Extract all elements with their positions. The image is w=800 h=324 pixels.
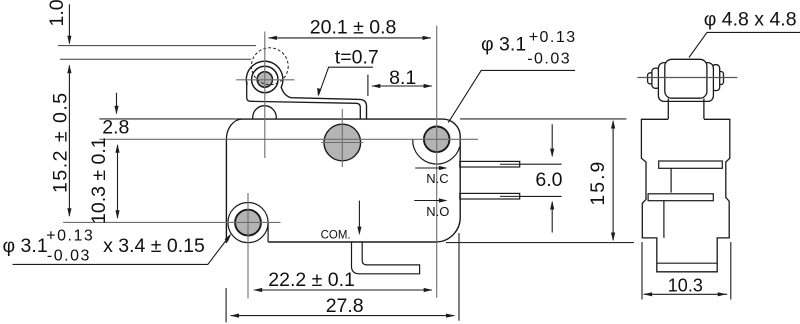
svg-text:+0.13: +0.13 xyxy=(46,228,94,245)
svg-text:N.C: N.C xyxy=(426,171,448,186)
terminal COM L-shaped blade xyxy=(352,242,420,274)
svg-text:COM.: COM. xyxy=(321,230,351,242)
leader phi4.8 xyxy=(689,32,800,57)
wire terminal upper stub xyxy=(670,168,672,192)
arrow COM down xyxy=(358,201,360,233)
svg-text:N.O: N.O xyxy=(426,204,449,219)
plunger neck xyxy=(668,99,704,119)
node 10.3 right extension line xyxy=(730,242,732,300)
switch body outline xyxy=(242,119,460,242)
node lever tip extension line xyxy=(367,75,369,96)
node centerline-hole-topright-vertical xyxy=(436,26,438,298)
boss circle around bottom-left hole xyxy=(228,203,268,243)
node roller tangent line top (dashed circle) xyxy=(58,45,256,47)
node 10.3 left extension line xyxy=(641,242,643,300)
svg-text:x 3.4 ± 0.15: x 3.4 ± 0.15 xyxy=(103,235,205,257)
svg-text:-0.03: -0.03 xyxy=(47,248,91,265)
arrow N.O terminal xyxy=(414,200,445,202)
wire terminal lower stub xyxy=(663,201,665,238)
node centerline-hole-bottomleft-horizontal xyxy=(63,221,280,223)
plunger button circle xyxy=(324,124,361,161)
node 27.8 right extension line xyxy=(458,233,460,321)
svg-text:10.3 ± 0.1: 10.3 ± 0.1 xyxy=(88,137,110,224)
boss arc around top-right hole xyxy=(413,139,460,164)
roller end-view right pin tab xyxy=(712,65,720,91)
wire bottom-edge-extension-right xyxy=(446,242,634,244)
roller end-view right pin tab outer xyxy=(718,72,724,85)
mounting hole top-right xyxy=(424,127,450,153)
svg-text:20.1 ± 0.8: 20.1 ± 0.8 xyxy=(310,16,397,38)
svg-text:15.2 ± 0.5: 15.2 ± 0.5 xyxy=(50,91,72,193)
dimension 10.3 vertical line with arrows xyxy=(117,145,119,218)
leader phi3.1 bottom-left with arrow xyxy=(13,236,230,265)
node centerline-plunger-horizontal xyxy=(321,142,363,144)
svg-text:27.8: 27.8 xyxy=(326,295,364,317)
svg-text:φ 3.1: φ 3.1 xyxy=(3,235,48,257)
node 27.8 left extension line xyxy=(225,288,227,322)
svg-text:10.3: 10.3 xyxy=(668,276,703,296)
roller end-view left pin tab xyxy=(652,68,660,88)
dimension 15.9 vertical line xyxy=(612,121,614,240)
dimension 1.0 vertical line xyxy=(68,4,70,43)
leader t=0.7 xyxy=(319,67,373,94)
roller pivot pin xyxy=(257,72,272,87)
node 6.0 lower extension line xyxy=(520,195,562,197)
side view body outline xyxy=(641,119,729,271)
terminal blade N.O xyxy=(460,193,520,199)
dimension 6.0 lower arrow xyxy=(551,202,553,233)
node centerline-roller-horizontal xyxy=(236,79,294,81)
svg-text:+0.13: +0.13 xyxy=(529,29,577,46)
roller end-view left pin tab outer xyxy=(648,73,654,84)
node centerline-hole-bottomleft-vertical xyxy=(247,193,249,298)
svg-text:2.8: 2.8 xyxy=(102,117,129,139)
terminal blade N.C notch line xyxy=(500,163,520,165)
svg-text:t=0.7: t=0.7 xyxy=(335,47,379,69)
switch body top-left corner xyxy=(226,119,242,139)
arrow N.C terminal xyxy=(415,167,445,169)
roller hub circle xyxy=(252,66,278,92)
terminal bar lower end-view xyxy=(648,194,713,201)
roller bracket side plates xyxy=(658,63,713,102)
dimension 6.0 upper arrow xyxy=(551,124,553,156)
node foot inner line xyxy=(657,262,717,264)
wire top-edge-extension-left xyxy=(99,118,242,120)
mounting hole bottom-left xyxy=(235,210,261,236)
svg-text:-0.03: -0.03 xyxy=(527,51,571,68)
svg-text:φ 3.1: φ 3.1 xyxy=(481,34,526,56)
svg-text:φ 4.8 x 4.8: φ 4.8 x 4.8 xyxy=(704,9,797,31)
wire boss-to-bottom-edge vertical xyxy=(267,223,269,242)
roller outer circle and strip top edge with bent tip xyxy=(246,61,366,119)
roller end view xyxy=(665,59,707,98)
dimension 2.8 upper arrow xyxy=(116,93,118,114)
dimension 27.8 line xyxy=(231,315,455,317)
terminal blade N.C xyxy=(460,161,520,167)
node centerline-roller-vertical xyxy=(264,32,266,159)
dimension 8.1 line xyxy=(372,85,432,87)
actuator pin dome xyxy=(253,106,277,119)
dimension 10.3 line xyxy=(644,293,728,295)
leader phi3.1 top-right xyxy=(448,70,575,122)
node centerline-holes-horizontal xyxy=(99,138,478,140)
svg-text:15.9: 15.9 xyxy=(587,160,609,206)
node centerline-plunger-vertical xyxy=(341,109,343,167)
node roller tangent line bottom (solid circle) xyxy=(60,58,251,60)
svg-text:22.2 ± 0.1: 22.2 ± 0.1 xyxy=(268,269,355,291)
node 6.0 upper extension line xyxy=(520,163,562,165)
dimension 22.2 line xyxy=(254,289,432,291)
terminal bar upper end-view xyxy=(659,161,723,168)
roller phantom position dashed circle xyxy=(251,48,288,85)
switch body left edge xyxy=(225,139,227,243)
svg-text:1.0: 1.0 xyxy=(46,0,68,27)
wire top-edge-extension-right xyxy=(460,118,626,120)
terminal blade N.O notch line xyxy=(500,195,520,197)
dimension 15.2 vertical line xyxy=(68,66,70,217)
svg-text:8.1: 8.1 xyxy=(389,67,416,89)
dimension 20.1 line xyxy=(269,37,431,39)
node side view roller centerline xyxy=(637,77,737,79)
svg-text:6.0: 6.0 xyxy=(535,169,562,191)
lever bracket left side and strip bottom edge xyxy=(247,81,361,119)
